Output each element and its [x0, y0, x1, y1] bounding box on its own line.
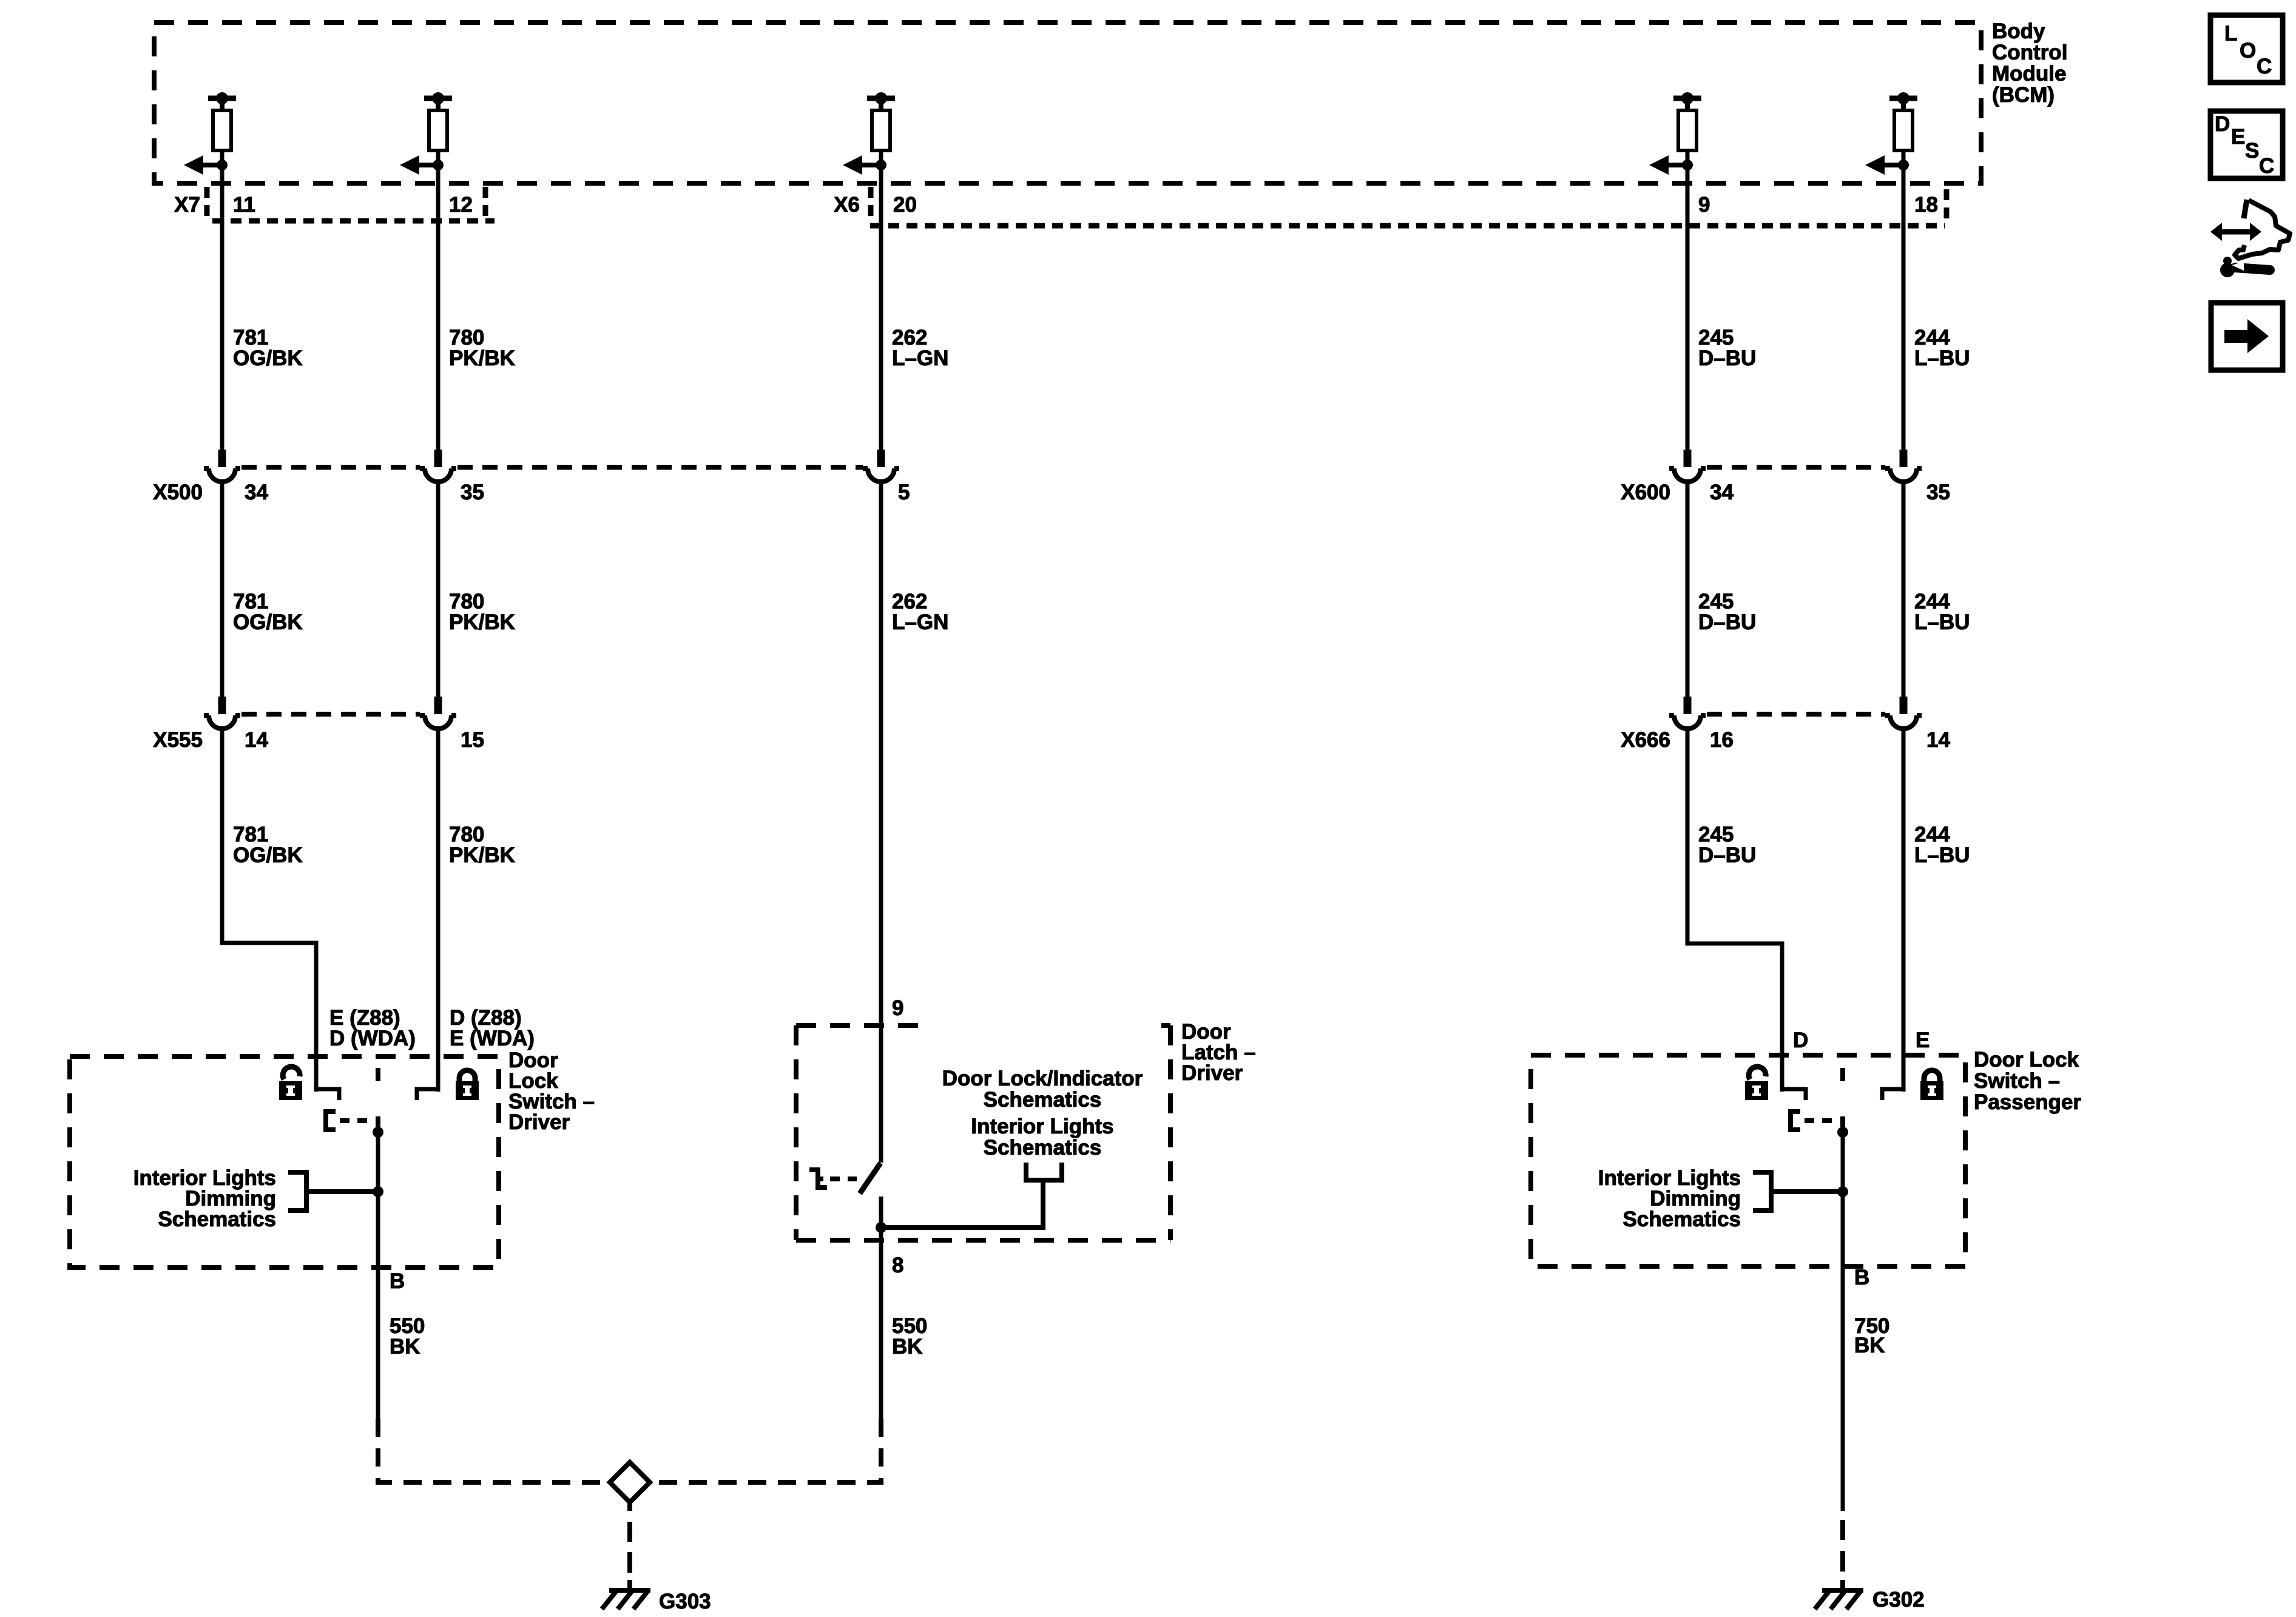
- wire 262 L-GN X500 to door latch: [879, 482, 883, 1163]
- svg-text:B: B: [390, 1269, 405, 1293]
- page continue arrow icon box: [2211, 303, 2283, 370]
- door lock/indicator schematics label: [942, 1067, 1143, 1112]
- driver switch actuator dashed link: [340, 1118, 375, 1123]
- svg-text:Driver: Driver: [1181, 1061, 1243, 1085]
- wire passenger switch common to ground run: [1841, 1132, 1845, 1511]
- svg-text:E: E: [2231, 125, 2245, 149]
- svg-text:PK/BK: PK/BK: [449, 610, 515, 634]
- node junction dot R5 output: [1898, 160, 1909, 170]
- wire label 244 L-BU (lower): [1914, 823, 1970, 867]
- wire driver switch common to ground run: [376, 1132, 380, 1419]
- wire label 245 D-BU (upper): [1698, 326, 1756, 370]
- driver switch contact hook E: [316, 1089, 339, 1100]
- driver switch pin label E (Z88) / D (WDA): [329, 1006, 416, 1050]
- node junction dot R2 output: [433, 160, 444, 170]
- ground G303 symbol: [602, 1590, 650, 1609]
- connector X666 dashed body line: [1707, 712, 1885, 717]
- svg-text:Schematics: Schematics: [158, 1207, 276, 1231]
- resistor R2 (BCM unlock output, wire 780): [424, 92, 452, 166]
- svg-text:14: 14: [245, 728, 268, 752]
- svg-text:L–BU: L–BU: [1914, 346, 1970, 370]
- svg-text:OG/BK: OG/BK: [233, 346, 303, 370]
- passenger switch common post (dashed): [1840, 1068, 1845, 1127]
- svg-text:L–GN: L–GN: [892, 610, 948, 634]
- svg-text:D (WDA): D (WDA): [329, 1027, 416, 1050]
- splice diamond S303: [610, 1462, 650, 1502]
- svg-text:PK/BK: PK/BK: [449, 346, 515, 370]
- connector X666 pin 16 (male pin + female socket): [1669, 697, 1706, 729]
- svg-text:D–BU: D–BU: [1698, 843, 1756, 867]
- svg-text:20: 20: [893, 193, 917, 217]
- wire driver dimming tap: [306, 1189, 378, 1194]
- svg-text:BK: BK: [892, 1335, 923, 1359]
- lock padlock icon (driver): [456, 1070, 479, 1100]
- wire splice to G303 (dashed): [627, 1502, 632, 1589]
- svg-text:34: 34: [1710, 481, 1734, 504]
- wire 781 OG/BK X555 to driver lock switch pin E: [222, 729, 316, 1092]
- connector X600 dashed body line: [1707, 465, 1885, 470]
- svg-text:D: D: [1793, 1028, 1808, 1052]
- svg-text:E (WDA): E (WDA): [450, 1027, 535, 1050]
- svg-text:E: E: [1916, 1028, 1930, 1052]
- wire label 780 PK/BK (middle): [449, 590, 515, 634]
- wire 780 PK/BK X500 to X555: [436, 482, 441, 698]
- connector X6 outline (dotted): [870, 187, 1947, 226]
- wire label 244 L-BU (upper): [1914, 326, 1970, 370]
- node junction dot R4 output: [1682, 160, 1693, 170]
- connector X500 dashed body line: [241, 465, 863, 470]
- svg-text:L–BU: L–BU: [1914, 843, 1970, 867]
- BCM name label: [1992, 19, 2067, 107]
- BCM module dashed box: [154, 22, 1981, 183]
- door lock switch driver name label: [508, 1048, 595, 1134]
- node junction dot R3 output: [876, 160, 886, 170]
- resistor R5 (BCM unlock output passenger, wire 244): [1889, 92, 1917, 166]
- wire 244 L-BU X666 to passenger lock switch pin E: [1902, 729, 1906, 1092]
- svg-text:15: 15: [461, 728, 484, 752]
- svg-text:Switch –: Switch –: [1974, 1069, 2060, 1093]
- wire label 245 D-BU (lower): [1698, 823, 1756, 867]
- node junction dot R1 output: [217, 160, 228, 170]
- wire 550 BK latch to splice (dashed): [652, 1419, 881, 1482]
- ground G302 symbol: [1815, 1590, 1863, 1609]
- wire latch output to schematics bracket: [881, 1180, 1043, 1227]
- svg-text:Module: Module: [1992, 62, 2066, 86]
- wire 781 OG/BK BCM pin 11 to X500: [220, 165, 225, 451]
- svg-text:OG/BK: OG/BK: [233, 843, 303, 867]
- signal arrow R5: [1865, 155, 1903, 175]
- door latch driver name label: [1181, 1020, 1256, 1085]
- svg-text:18: 18: [1914, 193, 1938, 217]
- wire label 750 BK (passenger): [1854, 1314, 1889, 1357]
- wire passenger dimming tap: [1771, 1189, 1843, 1194]
- svg-text:Interior Lights: Interior Lights: [971, 1115, 1113, 1138]
- wire 781 OG/BK X500 to X555: [220, 482, 225, 698]
- node junction driver switch common: [373, 1127, 383, 1138]
- svg-text:S: S: [2245, 139, 2259, 163]
- svg-text:34: 34: [245, 481, 268, 504]
- svg-text:X555: X555: [153, 728, 203, 752]
- connector X666 pin 14 (male pin + female socket): [1885, 697, 1922, 729]
- svg-text:L: L: [2224, 22, 2237, 46]
- svg-text:D: D: [2215, 112, 2230, 136]
- svg-text:O: O: [2240, 39, 2256, 62]
- passenger dimming schematics bracket: [1753, 1172, 1771, 1210]
- svg-text:Door Lock/Indicator: Door Lock/Indicator: [942, 1067, 1143, 1090]
- wire 244 L-BU BCM pin 18 to X600: [1902, 165, 1906, 451]
- connector X500 pin 34 (male pin + female socket): [204, 450, 240, 482]
- driver switch contact hook D: [417, 1089, 438, 1100]
- resistor R1 (BCM lock output, wire 781): [208, 92, 236, 166]
- svg-text:G303: G303: [659, 1590, 711, 1613]
- svg-text:Schematics: Schematics: [984, 1088, 1102, 1112]
- svg-text:16: 16: [1710, 728, 1734, 752]
- wire label 781 OG/BK (upper): [233, 326, 303, 370]
- passenger switch contact hook D: [1782, 1089, 1806, 1100]
- wire label 262 L-GN (middle): [892, 590, 948, 634]
- svg-text:Passenger: Passenger: [1974, 1090, 2081, 1114]
- driver switch actuator pivot bracket: [326, 1112, 336, 1130]
- interior lights dimming schematics label (driver): [133, 1166, 276, 1231]
- interior lights schematics label (latch): [971, 1115, 1113, 1160]
- connector X600 pin 34 (male pin + female socket): [1669, 450, 1706, 482]
- harness repair icon (double arrow, connector outline, wrench): [2210, 200, 2290, 277]
- connector X500 pin 35 (male pin + female socket): [420, 450, 456, 482]
- svg-text:(BCM): (BCM): [1992, 83, 2055, 107]
- svg-text:12: 12: [449, 193, 473, 217]
- interior lights dimming schematics label (passenger): [1598, 1166, 1741, 1231]
- svg-text:D–BU: D–BU: [1698, 610, 1756, 634]
- wire 245 D-BU X600 to X666: [1686, 482, 1690, 698]
- svg-text:9: 9: [892, 996, 903, 1020]
- door lock switch passenger dashed box: [1531, 1055, 1965, 1266]
- svg-text:Schematics: Schematics: [984, 1136, 1102, 1160]
- connector X500 pin 5 (male pin + female socket): [863, 450, 899, 482]
- node junction latch output: [876, 1222, 886, 1233]
- svg-text:8: 8: [892, 1254, 903, 1277]
- wire 780 PK/BK X555 to driver lock switch pin D: [436, 729, 441, 1092]
- svg-text:L–BU: L–BU: [1914, 610, 1970, 634]
- unlock padlock icon (driver): [279, 1067, 302, 1100]
- svg-text:PK/BK: PK/BK: [449, 843, 515, 867]
- connector X555 pin 15 (male pin + female socket): [420, 697, 456, 729]
- door latch switch blade (open): [860, 1163, 880, 1193]
- svg-text:Control: Control: [1992, 41, 2067, 64]
- svg-text:35: 35: [1926, 481, 1950, 504]
- svg-text:X7: X7: [174, 193, 200, 217]
- wire 550 BK driver to splice (dashed): [378, 1419, 607, 1482]
- svg-text:5: 5: [898, 481, 910, 504]
- svg-text:14: 14: [1926, 728, 1950, 752]
- svg-text:L–GN: L–GN: [892, 346, 948, 370]
- connector X555 dashed body line: [241, 712, 420, 717]
- svg-text:C: C: [2257, 55, 2272, 78]
- svg-text:X6: X6: [834, 193, 860, 217]
- svg-text:OG/BK: OG/BK: [233, 610, 303, 634]
- connector X7 outline (dotted): [207, 187, 495, 221]
- wire label 781 OG/BK (lower): [233, 823, 303, 867]
- resistor R4 (BCM lock output passenger, wire 245): [1673, 92, 1701, 166]
- node junction passenger switch common: [1837, 1127, 1848, 1138]
- svg-text:11: 11: [233, 193, 255, 217]
- resistor R3 (BCM door latch input, wire 262): [867, 92, 895, 166]
- driver dimming schematics bracket: [288, 1172, 306, 1210]
- passenger switch actuator pivot bracket: [1791, 1112, 1800, 1130]
- wire label 550 BK (latch): [892, 1314, 927, 1359]
- wire label 781 OG/BK (middle): [233, 590, 303, 634]
- signal arrow R1: [184, 155, 222, 175]
- signal arrow R2: [400, 155, 438, 175]
- DESC icon box: [2210, 111, 2283, 178]
- wire label 780 PK/BK (upper): [449, 326, 515, 370]
- node junction passenger dimming tap: [1837, 1186, 1848, 1197]
- latch schematics bracket: [1026, 1163, 1062, 1180]
- LOC icon box: [2210, 15, 2283, 83]
- passenger switch actuator dashed link: [1805, 1118, 1840, 1123]
- driver switch common post (dashed): [376, 1068, 380, 1127]
- svg-text:X600: X600: [1621, 481, 1670, 504]
- svg-text:BK: BK: [1854, 1334, 1885, 1357]
- wire label 262 L-GN (upper): [892, 326, 948, 370]
- svg-text:BK: BK: [390, 1335, 420, 1359]
- svg-text:Driver: Driver: [508, 1110, 570, 1134]
- node junction driver dimming tap: [373, 1186, 383, 1197]
- wire 262 L-GN BCM pin 20 to X500: [879, 165, 883, 451]
- svg-text:Schematics: Schematics: [1622, 1207, 1741, 1231]
- svg-text:G302: G302: [1872, 1588, 1925, 1612]
- signal arrow R4: [1649, 155, 1687, 175]
- wire 780 PK/BK BCM pin 12 to X500: [436, 165, 441, 451]
- svg-text:D–BU: D–BU: [1698, 346, 1756, 370]
- signal arrow R3: [843, 155, 881, 175]
- door latch actuator dashed link: [830, 1176, 857, 1181]
- unlock padlock icon (passenger): [1745, 1067, 1768, 1100]
- svg-text:B: B: [1854, 1266, 1869, 1289]
- svg-text:Body: Body: [1992, 19, 2045, 43]
- svg-text:9: 9: [1698, 193, 1710, 217]
- svg-text:Door Lock: Door Lock: [1974, 1048, 2079, 1072]
- wire 245 D-BU X666 to passenger lock switch pin D: [1687, 729, 1782, 1092]
- connector X600 pin 35 (male pin + female socket): [1885, 450, 1922, 482]
- wire 750 BK passenger to G302 (dashed): [1840, 1520, 1845, 1589]
- passenger switch contact hook E: [1882, 1089, 1903, 1100]
- wire 245 D-BU BCM pin 9 to X600: [1686, 165, 1690, 451]
- wire label 550 BK (driver): [390, 1314, 425, 1359]
- driver switch pin label D (Z88) / E (WDA): [450, 1006, 535, 1050]
- svg-text:X500: X500: [153, 481, 203, 504]
- wire latch switch lower contact: [879, 1197, 883, 1419]
- door lock switch driver dashed box: [70, 1056, 499, 1268]
- wire 244 L-BU X600 to X666: [1902, 482, 1906, 698]
- wire label 245 D-BU (middle): [1698, 590, 1756, 634]
- door latch switch pivot bracket: [809, 1170, 827, 1187]
- wire label 244 L-BU (middle): [1914, 590, 1970, 634]
- door lock switch passenger name label: [1974, 1048, 2081, 1114]
- door latch driver dashed box: [796, 1025, 1170, 1240]
- svg-text:C: C: [2259, 154, 2274, 178]
- wire label 780 PK/BK (lower): [449, 823, 515, 867]
- lock padlock icon (passenger): [1920, 1070, 1943, 1100]
- svg-text:X666: X666: [1621, 728, 1670, 752]
- svg-text:35: 35: [461, 481, 484, 504]
- connector X555 pin 14 (male pin + female socket): [204, 697, 240, 729]
